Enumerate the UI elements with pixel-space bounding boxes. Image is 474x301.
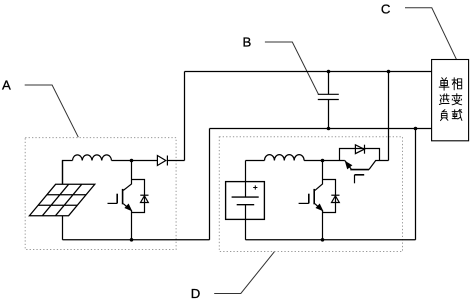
solar panel PV1 bbox=[29, 184, 94, 215]
dashed enclosure box A (PV boost converter) bbox=[25, 138, 176, 250]
glyph 相 bbox=[452, 78, 462, 90]
node: L2/Q2/Q3 junction bbox=[321, 159, 325, 163]
wire: boost diode output riser (x=184) bbox=[184, 72, 186, 161]
wire: box A left vertical through PV panel bbox=[62, 161, 64, 240]
IGBT Q1 (boost switch) bbox=[108, 161, 132, 240]
leader line from label A to box A bbox=[25, 85, 79, 137]
node: Q1 emitter on bottom rail bbox=[130, 238, 134, 242]
glyph 载 bbox=[452, 109, 462, 120]
arrow of Q3 emitter bbox=[345, 161, 353, 170]
glyph 逆 bbox=[439, 94, 449, 105]
battery BT1 (box D) bbox=[226, 161, 265, 240]
load box text 单相逆变负载 (hand-drawn glyphs) bbox=[439, 78, 462, 121]
wire: L1 to node bbox=[112, 160, 158, 162]
anti-parallel diode D2 of Q1 bbox=[132, 180, 149, 213]
svg-text:B: B bbox=[243, 35, 252, 50]
node: C1 on top rail bbox=[327, 70, 331, 74]
svg-text:A: A bbox=[2, 78, 11, 93]
wire: Q3 collector riser to top rail (x=388.5) bbox=[388, 72, 390, 161]
wire: box D bottom rail riser to negative rail (x=415.3) bbox=[415, 129, 417, 240]
wire: negative rail drop to bottom return (x=209.5) bbox=[209, 129, 211, 240]
leader line from label D to box D bbox=[214, 252, 274, 294]
glyph 负 bbox=[441, 110, 448, 121]
node: Q3 riser on top rail bbox=[387, 70, 391, 74]
anti-parallel diode D4 of Q3 bbox=[340, 145, 380, 161]
wire: top DC bus rail bbox=[185, 71, 432, 73]
capacitor C1 (DC link, label B) top stem bbox=[328, 72, 330, 95]
arrow of Q1 emitter bbox=[124, 204, 132, 212]
leader line from label C to load box bbox=[405, 8, 456, 60]
node: L1/Q1/D1 junction bbox=[130, 159, 134, 163]
IGBT Q2 (box D lower switch) bbox=[299, 161, 323, 240]
anti-parallel diode D3 of Q2 bbox=[323, 180, 340, 213]
dashed enclosure box D (battery bidirectional converter) bbox=[219, 137, 402, 252]
glyph 变 bbox=[452, 94, 462, 105]
node: Q2 emitter on box D bottom rail bbox=[321, 238, 325, 242]
wire: second DC bus rail (negative) bbox=[210, 128, 432, 130]
inductor L2 (box D) bbox=[265, 155, 305, 161]
svg-text:D: D bbox=[191, 286, 201, 301]
wire: box A top wire with corner at left bbox=[63, 161, 73, 185]
inductor L1 (boost inductor, box A) bbox=[73, 155, 112, 161]
load box C (single-phase inverter load) bbox=[432, 60, 469, 141]
diode D1 (boost diode) bbox=[157, 156, 184, 166]
IGBT Q3 (box D upper switch, horizontal) bbox=[345, 161, 389, 184]
svg-text:C: C bbox=[381, 1, 391, 16]
wire: L2 to node and to Q3 emitter bbox=[304, 160, 345, 162]
node: C1 on negative rail bbox=[327, 127, 331, 131]
wire: box D bottom rail bbox=[246, 239, 416, 241]
capacitor C1 bottom stem bbox=[328, 100, 330, 129]
wire: battery top wire to L2 bbox=[246, 160, 265, 162]
arrow of Q2 emitter bbox=[316, 204, 324, 212]
wire: box A bottom return rail bbox=[63, 239, 210, 241]
glyph 单 bbox=[439, 78, 449, 91]
node: riser on negative rail bbox=[414, 127, 418, 131]
battery plus sign bbox=[253, 185, 257, 189]
capacitor C1 plates bbox=[318, 94, 339, 99]
leader line from label B to capacitor C1 bbox=[265, 42, 318, 94]
